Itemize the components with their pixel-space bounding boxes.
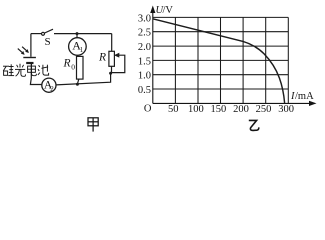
- svg-text:150: 150: [211, 104, 227, 115]
- svg-text:S: S: [45, 36, 51, 48]
- svg-text:R: R: [63, 58, 71, 70]
- svg-text:0: 0: [71, 63, 75, 72]
- svg-text:1.0: 1.0: [138, 71, 151, 82]
- svg-text:1: 1: [80, 46, 84, 54]
- svg-text:O: O: [144, 104, 152, 115]
- svg-text:3.0: 3.0: [138, 13, 151, 24]
- svg-text:/V: /V: [163, 5, 174, 16]
- svg-text:2.5: 2.5: [138, 28, 151, 39]
- svg-text:2: 2: [50, 85, 54, 93]
- svg-text:300: 300: [278, 104, 294, 115]
- svg-text:200: 200: [233, 104, 249, 115]
- svg-text:100: 100: [188, 104, 204, 115]
- svg-text:R: R: [98, 52, 106, 64]
- svg-text:0.5: 0.5: [138, 85, 151, 96]
- svg-text:250: 250: [256, 104, 272, 115]
- svg-text:/mA: /mA: [295, 91, 314, 102]
- svg-text:2.0: 2.0: [138, 42, 151, 53]
- svg-text:1.5: 1.5: [138, 56, 151, 67]
- svg-text:50: 50: [168, 104, 179, 115]
